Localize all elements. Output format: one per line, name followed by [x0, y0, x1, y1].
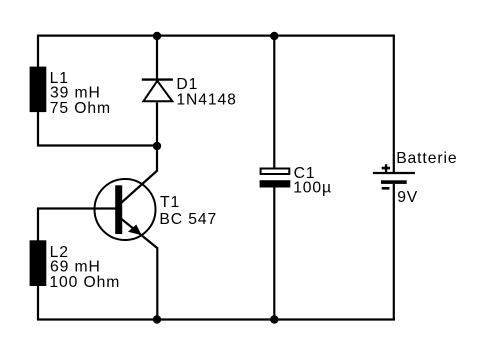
svg-text:Batterie: Batterie [396, 150, 457, 167]
transistor T1 base bar [115, 185, 122, 234]
transistor T1 circle [95, 179, 156, 240]
wire collector vertical [156, 145, 158, 172]
wire L1 loop bottom [37, 144, 157, 146]
junction dot bottom rail / emitter branch [153, 315, 161, 323]
wire D1 branch bottom [156, 102, 158, 146]
wire C1 branch top [273, 35, 275, 169]
battery negative plate [381, 180, 407, 184]
wire base from L2 node [37, 207, 116, 209]
wire left rail upper (L1 branch) [37, 35, 39, 147]
junction dot bottom rail / C1 branch [270, 315, 278, 323]
capacitor C1 top plate [261, 169, 290, 175]
svg-text:100 Ohm: 100 Ohm [49, 274, 120, 291]
junction dot top rail / C1 branch [270, 32, 278, 40]
wire top rail [37, 34, 395, 36]
diode D1 triangle [143, 81, 172, 102]
svg-text:100µ: 100µ [293, 179, 332, 196]
junction dot D1 bottom collector node [153, 142, 161, 150]
svg-text:75 Ohm: 75 Ohm [50, 100, 111, 117]
battery plus sign [382, 164, 390, 172]
svg-text:9V: 9V [397, 189, 418, 206]
wire bottom rail [37, 318, 395, 320]
wire emitter vertical [156, 247, 158, 320]
inductor L2 [30, 240, 47, 286]
wire battery branch top [393, 35, 395, 174]
junction dot top rail / D1 branch [153, 32, 161, 40]
transistor T1 emitter arrow [128, 225, 142, 236]
wire left rail lower (L2 branch) [37, 208, 39, 321]
svg-text:BC 547: BC 547 [159, 211, 217, 228]
inductor L1 [30, 67, 47, 113]
svg-text:T1: T1 [160, 194, 180, 211]
svg-text:39 mH: 39 mH [50, 85, 101, 102]
battery positive plate [373, 172, 415, 174]
transistor T1 collector lead [121, 171, 157, 204]
transistor T1 emitter lead [122, 219, 158, 248]
capacitor C1 bottom plate [260, 180, 291, 187]
svg-text:D1: D1 [176, 76, 198, 93]
wire C1 branch bottom [273, 188, 275, 321]
svg-text:1N4148: 1N4148 [176, 92, 236, 109]
battery minus sign [382, 187, 390, 190]
diode D1 cathode bar [142, 78, 173, 80]
wire D1 branch top [156, 35, 158, 80]
wire battery branch bottom [393, 184, 395, 321]
